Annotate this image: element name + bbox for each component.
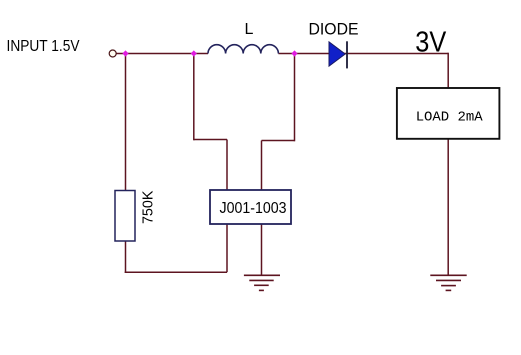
svg-text:J001-1003: J001-1003 — [220, 200, 287, 217]
svg-text:LOAD 2mA: LOAD 2mA — [416, 110, 483, 126]
diode D1 cathode bar — [346, 41, 348, 68]
junction node B — [191, 50, 197, 56]
ground right — [430, 275, 466, 290]
input terminal — [109, 50, 116, 57]
svg-text:DIODE: DIODE — [309, 19, 359, 38]
ground middle — [244, 275, 280, 290]
wire resistor bottom down — [125, 241, 127, 273]
resistor R1 750K — [115, 191, 135, 242]
wire drop from node B — [193, 54, 195, 141]
svg-text:750K: 750K — [141, 190, 157, 224]
load box — [397, 88, 500, 139]
wire drop from node C — [294, 54, 296, 142]
diode D1 triangle — [329, 42, 345, 66]
wire drop from node A to resistor top — [125, 54, 127, 191]
wire down into converter top-right pin — [261, 141, 263, 191]
svg-text:INPUT 1.5V: INPUT 1.5V — [7, 38, 80, 55]
svg-text:3V: 3V — [415, 27, 447, 59]
wire jog left — [262, 140, 295, 142]
junction node A — [122, 50, 128, 56]
wire rail inductor to corner — [278, 53, 448, 55]
svg-text:L: L — [245, 21, 254, 38]
junction node C — [291, 50, 297, 56]
wire up into converter bottom-left pin — [226, 224, 228, 272]
wire bottom horizontal — [125, 271, 227, 273]
wire down into converter top-left pin — [226, 140, 228, 191]
converter U1 box — [210, 190, 291, 224]
inductor L — [208, 45, 278, 54]
wire jog right — [194, 139, 227, 141]
wire converter bottom-right pin to ground — [261, 224, 263, 275]
wire top rail from input terminal to right corner — [117, 53, 209, 55]
wire load bottom to ground — [447, 139, 449, 275]
wire right drop to load — [447, 53, 449, 88]
